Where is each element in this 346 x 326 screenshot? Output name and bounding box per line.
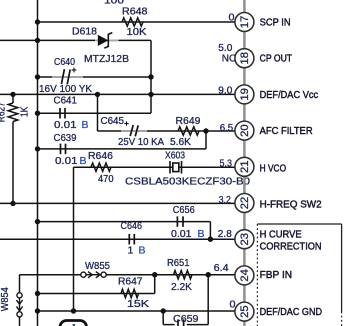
jumper W855 symbol <box>81 272 106 278</box>
svg-text:10K: 10K <box>127 26 147 38</box>
junction dot at (206,131) <box>203 128 208 133</box>
wire: C659 right link segment <box>187 324 208 326</box>
wire: vertical bus at x=37.5 from top edge to bottom edge <box>37 0 39 326</box>
wire: D618 row from left edge to corner at x=151 <box>0 39 151 41</box>
capacitor C645 electrolytic plates <box>130 125 138 136</box>
svg-text:0: 0 <box>230 299 236 310</box>
plus sign of C645 <box>124 121 128 125</box>
svg-text:H CURVE: H CURVE <box>260 229 302 241</box>
wire: pin17 row from bus node to pin 17 <box>38 21 236 23</box>
svg-text:B: B <box>80 155 87 167</box>
svg-text:D618: D618 <box>72 26 97 38</box>
wire: C659 left link segment <box>163 324 174 326</box>
capacitor C646 <box>129 234 134 245</box>
wire: H-FREQ SW2 row (pin 22) from left edge to pin 22 <box>0 202 235 204</box>
zener diode D618 symbol <box>98 33 113 49</box>
svg-text:MTZJ12B: MTZJ12B <box>84 53 129 65</box>
crystal X603 symbol <box>170 161 182 174</box>
svg-text:5.3: 5.3 <box>220 159 233 170</box>
svg-text:CSBLA503KECZF30-B0: CSBLA503KECZF30-B0 <box>125 176 250 188</box>
wire: vertical from Vcc row down to C645 corner at x=97.5 <box>97 94 99 131</box>
capacitor C640 electrolytic plates <box>61 69 70 84</box>
svg-text:6.5: 6.5 <box>220 123 234 134</box>
wire: vertical from AFC dot down to C639 row <box>205 131 207 149</box>
junction dot at (37.5,293.5) <box>35 291 40 296</box>
svg-text:B: B <box>139 245 146 257</box>
svg-text:C656: C656 <box>173 204 195 216</box>
wire: FBP row from W855 through R651 to pin 24 <box>106 274 235 276</box>
svg-text:20: 20 <box>239 124 251 137</box>
svg-text:100: 100 <box>104 0 124 7</box>
IC pin 18 circle <box>235 49 254 68</box>
wire: C641 row from bus to corner x=151 <box>38 112 152 114</box>
wire: vertical x=73.5 from R646 corner down to DEF/DAC GND row <box>73 167 75 311</box>
IC pin 17 circle <box>235 13 254 32</box>
svg-text:3.2: 3.2 <box>219 195 231 206</box>
svg-text:22: 22 <box>239 197 251 210</box>
junction dot at (208.2,274.7) <box>206 272 211 277</box>
junction dot at (163.2,311) <box>161 308 166 313</box>
svg-text:1: 1 <box>128 245 134 257</box>
svg-text:24: 24 <box>239 269 251 282</box>
junction dot at (37.5,221.6) <box>35 219 40 224</box>
resistor R627 zigzag <box>8 103 18 121</box>
svg-text:0.01: 0.01 <box>54 119 77 131</box>
wire: H VCO row from corner x=73.5 through R646 and X603 to pin 21 <box>74 166 236 168</box>
function block box: solid right edge <box>341 224 343 312</box>
jumper W854 symbol <box>16 293 22 317</box>
svg-text:16V 100 YK: 16V 100 YK <box>39 83 92 95</box>
wire: C640 row from bus to x=151 <box>38 76 152 78</box>
junction dot at (210.4,239.2) <box>208 237 213 242</box>
resistor R627 upper lead wire <box>12 94 14 103</box>
junction dot at (37.5,311) <box>35 308 40 313</box>
svg-text:0.01: 0.01 <box>55 155 78 167</box>
capacitor C645 gray leads <box>121 130 147 132</box>
plus sign of C640 <box>72 68 77 73</box>
svg-text:CORRECTION: CORRECTION <box>260 241 322 253</box>
svg-text:25V 10 KA: 25V 10 KA <box>118 136 164 148</box>
wire: C656 row from bus to corner x=210.4 <box>38 221 211 223</box>
svg-text:C639: C639 <box>54 132 77 144</box>
svg-text:W854: W854 <box>0 287 11 311</box>
wire: R647 row from bus to corner x=154.7 <box>38 293 155 295</box>
capacitor C639 <box>61 144 66 155</box>
svg-text:W855: W855 <box>85 260 110 272</box>
wire: vertical from GND row dot down to C659 row <box>162 311 164 325</box>
junction dot at (37.5,113.2) <box>35 111 40 116</box>
svg-text:C659: C659 <box>173 313 199 325</box>
wire: DEF/DAC GND row (pin 25) from bus to pin 25 <box>38 310 236 312</box>
resistor R648 zigzag <box>122 18 143 26</box>
IC pin 21 circle <box>235 157 254 176</box>
wire: DEF/DAC Vcc row (pin 19) from left edge to pin 19 <box>0 93 235 95</box>
resistor R647 zigzag <box>121 289 139 297</box>
svg-text:SCP IN: SCP IN <box>260 17 291 29</box>
IC pin 24 circle <box>235 266 254 285</box>
svg-text:DEF/DAC GND: DEF/DAC GND <box>260 306 323 318</box>
svg-text:R651: R651 <box>167 257 190 269</box>
junction dot at (73.5,311) <box>71 308 76 313</box>
svg-text:R646: R646 <box>88 150 113 162</box>
resistor R646 zigzag <box>91 163 111 171</box>
wire: R627 bottom lead down to pin22 row <box>12 122 14 204</box>
junction dot at (13,203.4) bottom of R627 <box>10 201 15 206</box>
IC pin 20 circle <box>235 121 254 140</box>
wire: vertical from R647 right lead up to FBP row dot <box>154 275 156 294</box>
svg-text:FBP IN: FBP IN <box>260 269 293 281</box>
svg-text:C646: C646 <box>121 220 143 232</box>
svg-text:CP OUT: CP OUT <box>260 53 293 65</box>
junction dot at (151,94.4) <box>148 92 153 97</box>
svg-text:0.01: 0.01 <box>171 228 192 240</box>
svg-text:C641: C641 <box>54 95 78 107</box>
svg-text:AFC FILTER: AFC FILTER <box>260 125 313 137</box>
junction dot at (37.5,77) <box>35 74 40 79</box>
svg-text:1K: 1K <box>20 107 31 118</box>
svg-text:H-FREQ SW2: H-FREQ SW2 <box>260 199 322 211</box>
svg-text:25: 25 <box>239 305 251 318</box>
junction dot at (37.5,40.4) <box>35 38 40 43</box>
wire: vertical from C656 corner down to pin23 row <box>209 222 211 240</box>
capacitor C659 (clipped at bottom edge) <box>178 319 184 326</box>
IC pin 19 circle <box>235 85 254 104</box>
svg-text:R648: R648 <box>122 6 148 18</box>
IC pin 23 circle <box>235 230 254 249</box>
IC pin 25 circle <box>235 302 254 321</box>
resistor R649 zigzag <box>178 127 199 135</box>
function block box: dashed right edge continuation <box>341 312 343 326</box>
wire: below W854 to bottom edge <box>19 317 21 326</box>
svg-text:9.0: 9.0 <box>218 85 232 96</box>
svg-text:C645: C645 <box>101 115 125 127</box>
wire: H CURVE row (pin 23) from left edge to pin 23 <box>0 238 235 240</box>
capacitor C641 <box>60 108 65 119</box>
svg-text:15K: 15K <box>127 298 149 310</box>
svg-text:5.6K: 5.6K <box>170 136 191 148</box>
svg-text:NC: NC <box>222 53 237 64</box>
svg-text:B: B <box>198 228 205 240</box>
IC pin 22 circle <box>235 194 254 213</box>
svg-text:R627: R627 <box>0 102 8 122</box>
svg-text:R647: R647 <box>118 276 143 288</box>
junction dot at (13,94.4) top of R627 <box>10 92 15 97</box>
resistor R651 zigzag <box>174 271 192 279</box>
svg-text:18: 18 <box>239 52 251 64</box>
svg-text:X603: X603 <box>165 150 185 162</box>
wire: vertical x=19.5 from FBP corner down to W854 <box>19 275 21 293</box>
junction dot at (37.5,148.9) <box>35 146 40 151</box>
svg-text:C640: C640 <box>54 56 75 68</box>
junction dot at (37.5,22) <box>35 19 40 24</box>
wire: vertical from D618 cathode at x=151 down to C641 corner <box>150 40 152 113</box>
svg-text:21: 21 <box>239 161 251 174</box>
connector symbol (rounded box, clipped at bottom edge) <box>60 321 87 326</box>
wire: FBP row left segment from corner x=19.5 to W855 <box>20 274 82 276</box>
svg-text:2.2K: 2.2K <box>171 281 192 293</box>
junction dot at (151,77) <box>148 74 153 79</box>
IC body vertical gray line at x=244.4 <box>243 0 246 326</box>
capacitor C640 gray lead <box>52 76 83 78</box>
junction dot at (97.5,94.4) <box>95 92 100 97</box>
svg-text:23: 23 <box>239 233 251 246</box>
wire: AFC FILTER row from corner through C645 and R649 to pin 20 <box>98 130 236 132</box>
capacitor C656 <box>177 216 183 227</box>
svg-text:19: 19 <box>239 88 251 101</box>
svg-text:DEF/DAC Vcc: DEF/DAC Vcc <box>260 89 319 101</box>
svg-text:17: 17 <box>239 16 251 29</box>
svg-text:470: 470 <box>98 173 114 185</box>
svg-text:2.8: 2.8 <box>218 229 232 240</box>
svg-text:H VCO: H VCO <box>260 163 287 175</box>
function block box: solid top edge <box>257 223 341 225</box>
function block box: dashed left edge <box>256 224 258 326</box>
zener diode D618 gray lead <box>95 39 119 41</box>
wire: C639 row from bus to x=206 <box>38 148 207 150</box>
svg-text:B: B <box>82 119 89 131</box>
svg-text:0: 0 <box>229 13 235 24</box>
svg-text:R649: R649 <box>176 115 201 127</box>
svg-text:6.4: 6.4 <box>214 263 229 274</box>
wire: vertical x=208.2 from FBP dot down across GND row to C659 <box>207 275 209 325</box>
junction dot at (154.7,274.7) <box>152 272 157 277</box>
